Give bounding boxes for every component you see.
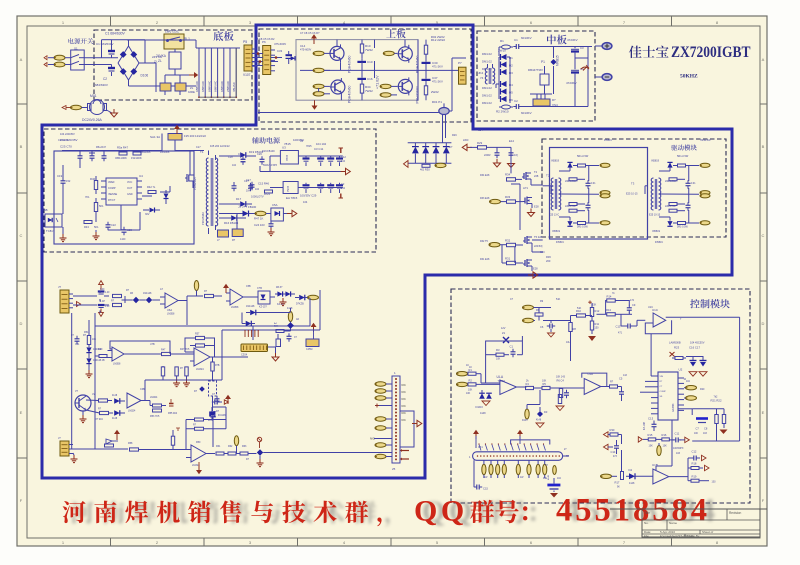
wire U1C out [666, 317, 740, 441]
connector CN1 [58, 285, 73, 313]
svg-text:R12: R12 [595, 309, 600, 313]
svg-text:C7: C7 [696, 427, 700, 431]
label 100/35V b [300, 182, 346, 204]
wire aux rail2 [260, 168, 350, 174]
svg-text:TC817: TC817 [46, 229, 55, 233]
mosfet V2 [522, 170, 543, 185]
arrow diode row [404, 161, 409, 168]
svg-text:C10: C10 [616, 325, 621, 329]
tr [551, 178, 553, 182]
svg-text:VCC: VCC [127, 181, 132, 184]
svg-text:D: D [762, 321, 765, 326]
svg-text:F25 200 12/22/22: F25 200 12/22/22 [210, 145, 230, 148]
svg-text:C?B: C?B [257, 287, 262, 290]
svg-text:5K1: 5K1 [99, 204, 104, 208]
diode Df5 [194, 386, 205, 393]
svg-text:PGH40N60: PGH40N60 [415, 86, 419, 103]
svg-text:PRN2536X: PRN2536X [201, 212, 205, 225]
power arrow m1 [311, 323, 317, 339]
svg-text:R13: R13 [606, 308, 611, 312]
diode D15 [164, 190, 169, 204]
pill m1 [288, 308, 292, 322]
module box 控制模块 [451, 289, 750, 503]
connector P2 25pin [392, 371, 400, 471]
arrow g left [638, 437, 648, 442]
bridge rectifier DY06 [112, 40, 163, 80]
svg-text:471-2KV: 471-2KV [432, 80, 443, 84]
arrow g right3 [705, 465, 710, 470]
pill drv2 [490, 199, 507, 203]
label 上板 [386, 29, 405, 38]
op-amp U6B [226, 289, 252, 309]
svg-text:10K: 10K [542, 380, 547, 383]
svg-text:DM1.02: DM1.02 [482, 60, 492, 64]
svg-text:IN5819: IN5819 [651, 160, 660, 163]
resistor RY1 [217, 230, 229, 242]
power arrow f3 [225, 395, 231, 404]
label R01 P1 [432, 100, 442, 104]
svg-text:R57: R57 [195, 333, 200, 336]
capacitor C1 [105, 32, 126, 58]
svg-text:DM1.02: DM1.02 [482, 101, 492, 105]
transistor Q4 [329, 44, 344, 62]
ground D3d [536, 423, 544, 428]
wire P2 loop [400, 411, 414, 447]
resistor R9 [535, 308, 551, 321]
svg-text:1440: 1440 [120, 238, 126, 241]
svg-text:2200: 2200 [463, 139, 469, 142]
label 4723KV b [566, 81, 577, 85]
capacitor maroon f [169, 399, 174, 406]
svg-text:475-600V: 475-600V [300, 48, 312, 52]
svg-text:D1D?: D1D? [522, 420, 529, 422]
zener Z1 [501, 327, 509, 343]
resistor R1 [468, 366, 481, 376]
svg-text:4148: 4148 [112, 418, 118, 420]
svg-text:R33: R33 [505, 195, 511, 199]
svg-text:6013KV: 6013KV [521, 111, 532, 115]
connector P6 [262, 40, 275, 75]
wire m cluster [242, 313, 291, 332]
varistor VS4 [530, 94, 558, 107]
arrow below U10 [196, 462, 202, 474]
svg-text:10K: 10K [466, 392, 471, 395]
svg-text:R7B: R7B [215, 365, 220, 367]
label sprinkle 1 [96, 31, 320, 46]
resistor R47a [131, 152, 142, 160]
svg-text:T3: T3 [631, 182, 635, 186]
op-amp ULA [481, 374, 526, 395]
svg-text:S1: S1 [74, 47, 78, 51]
svg-text:R2: R2 [469, 379, 473, 383]
diode Zf2 [139, 297, 160, 303]
svg-text:R29: R29 [477, 141, 483, 145]
IC U4 [101, 174, 143, 205]
svg-text:ZL: ZL [158, 59, 162, 63]
pins above CZ2 [478, 443, 545, 450]
svg-text:R?: R? [552, 98, 556, 102]
svg-text:100/50PX: 100/50PX [673, 447, 684, 450]
pills P2 [375, 382, 392, 400]
svg-text:25: 25 [392, 467, 396, 471]
svg-text:HR10-5W: HR10-5W [700, 139, 711, 142]
svg-text:C19: C19 [57, 174, 63, 178]
connector CN2 [58, 436, 73, 456]
svg-text:R4: R4 [526, 382, 530, 386]
spark gap [581, 65, 589, 71]
label PGH40N60 4 [415, 86, 419, 103]
svg-text:No.: No. [644, 521, 649, 525]
transistor Qf1 [75, 390, 91, 411]
power sym f4 [257, 437, 261, 448]
wire aux left [63, 165, 96, 234]
wire drv entry [543, 186, 648, 194]
capacitor C3m [571, 46, 584, 58]
capacitor C34 [274, 42, 295, 64]
svg-text:471-2KV: 471-2KV [432, 65, 443, 69]
label R21 R22 [711, 396, 722, 403]
svg-text:VIN: VIN [660, 376, 664, 378]
diode Df7 [112, 410, 125, 420]
op-amp U10 [186, 445, 215, 467]
power arrow f1 [223, 284, 229, 293]
svg-text:0.01: 0.01 [591, 183, 596, 185]
svg-text:R47 1K: R47 1K [254, 217, 263, 221]
capacitor Cf1 [98, 292, 110, 295]
diode D3g [476, 393, 492, 415]
svg-text:CZ04: CZ04 [241, 354, 248, 357]
diode Df4 [295, 295, 308, 306]
svg-text:4B: 4B [130, 292, 133, 295]
power arrow motor [62, 106, 71, 110]
wire CZ2 right [563, 449, 569, 456]
svg-text:R02 2W22: R02 2W22 [431, 35, 445, 39]
svg-text:288VAC: 288VAC [226, 80, 230, 92]
svg-text:104 45C55V: 104 45C55V [690, 340, 705, 344]
wire mid rail [300, 63, 458, 71]
label 10L [566, 341, 571, 344]
svg-text:Name: Name [669, 521, 677, 525]
svg-text:C14: C14 [478, 129, 483, 132]
label 220/63 [534, 245, 545, 254]
resistor Rf14 [186, 424, 226, 431]
pill R17 [601, 474, 621, 488]
svg-text:J2 24V: J2 24V [238, 205, 247, 209]
label 4723KV a [567, 38, 578, 42]
resistor Rf4 [95, 355, 107, 358]
svg-text:R23: R23 [674, 345, 680, 349]
svg-text:104: 104 [232, 164, 237, 167]
svg-text:5R1-0.5W: 5R1-0.5W [577, 226, 589, 229]
zener col f [86, 358, 105, 363]
relay P1m [528, 60, 549, 94]
svg-text:1K: 1K [469, 366, 472, 369]
resistor R32 [505, 239, 523, 247]
svg-text:LM324: LM324 [150, 396, 158, 399]
svg-text:R61: R61 [216, 445, 221, 448]
capacitor C17 [700, 356, 707, 367]
svg-text:R34: R34 [505, 173, 511, 177]
svg-text:D17: D17 [236, 197, 242, 201]
capacitor Cm2 [212, 399, 229, 411]
svg-text:104 104: 104 104 [316, 142, 327, 146]
resistor Rf1 [113, 294, 122, 297]
label 电源开关 [68, 38, 93, 44]
label T1v [201, 212, 205, 225]
svg-text:R36: R36 [546, 255, 551, 259]
wire g row1 [551, 320, 571, 322]
svg-text:4B Z?: 4B Z? [276, 286, 283, 289]
label sprinkle 11 [466, 298, 561, 395]
capacitor C16 [690, 356, 697, 367]
capacitor C30 [422, 59, 444, 70]
ground D1D3 [482, 401, 490, 406]
capacitor C4m [571, 58, 584, 80]
svg-text:C9: C9 [632, 303, 636, 307]
wire C16 top [686, 356, 703, 358]
svg-text:51K: 51K [556, 298, 561, 301]
resistor U8 in1 [161, 366, 164, 380]
svg-text:7K1: 7K1 [85, 195, 90, 199]
label sprinkle 14 [556, 139, 711, 244]
svg-text:OUT: OUT [127, 187, 133, 190]
transistor Q3 [397, 77, 412, 95]
svg-text:U1C: U1C [652, 308, 659, 312]
connector CZ04 [241, 344, 268, 357]
capacitor C23 [120, 227, 132, 241]
capacitor C25 [78, 150, 83, 165]
IC U2 [651, 368, 684, 421]
capacitor C2 [95, 65, 115, 88]
svg-text:104: 104 [303, 200, 308, 204]
capacitor Cd1 [484, 147, 501, 167]
svg-text:PGH40N60: PGH40N60 [348, 86, 352, 103]
arrow Cf2 [99, 309, 104, 317]
pill P2 low2 [375, 454, 392, 458]
wires P5 P6 [252, 53, 282, 66]
label E14 [509, 139, 514, 143]
transistor Q5 [330, 78, 345, 96]
red banner text [63, 493, 710, 529]
wire f right vert [212, 407, 226, 429]
svg-text:C45M: C45M [306, 348, 312, 351]
ground CZ04 [268, 347, 279, 361]
label PGH40N60 1 [348, 56, 352, 73]
label sprinkle 3 [140, 145, 230, 154]
connector P6r [458, 61, 466, 84]
svg-text:N/C: N/C [402, 398, 407, 401]
diode D20 [237, 211, 255, 217]
svg-text:200: 200 [546, 259, 551, 263]
wire f bottom bus [69, 448, 128, 450]
capacitor C19 [57, 174, 71, 186]
svg-text:9K: 9K [617, 487, 620, 489]
svg-text:51K: 51K [577, 307, 582, 310]
svg-text:+71.02V: +71.02V [376, 75, 380, 89]
motor pill [71, 105, 88, 109]
red plus g1 [588, 301, 592, 305]
pill R1 [457, 372, 468, 376]
labels DM1.02 b [482, 86, 492, 105]
diode D16 [219, 215, 246, 225]
svg-text:R15: R15 [648, 433, 653, 437]
capacitor C17a [246, 178, 260, 191]
svg-text:E: E [20, 410, 23, 415]
svg-text:A: A [20, 57, 23, 62]
power arrow f2 [114, 430, 120, 440]
ground drv2 [528, 209, 535, 217]
label sprinkle 2 [58, 132, 106, 149]
wire U2 left pins [640, 334, 651, 392]
resistor Rf9 [150, 401, 166, 408]
diode D4g [626, 468, 653, 485]
red terminal bottom [339, 194, 344, 199]
label R6 C4 [556, 376, 566, 383]
wire drv右 [515, 247, 551, 263]
capacitor C4 [564, 390, 569, 398]
pins CZ04 [244, 330, 258, 337]
svg-text:E25 10-15: E25 10-15 [626, 193, 638, 196]
regulator U6 [270, 182, 343, 201]
svg-text:D4: D4 [629, 468, 633, 472]
svg-text:C1 684/630V: C1 684/630V [96, 42, 114, 46]
wire U7 fb [110, 341, 170, 354]
wire U9 up [145, 357, 222, 401]
box C5A [271, 203, 290, 221]
svg-text:7815: 7815 [285, 154, 289, 161]
transformer T3 assembly [649, 155, 710, 233]
svg-text:LM358: LM358 [167, 313, 175, 316]
op-amp U1C [645, 308, 671, 334]
capacitor C1m [513, 38, 521, 49]
diode D3 [501, 69, 514, 75]
diode D4 [501, 81, 514, 87]
resistor R7g [610, 381, 622, 389]
pill Q3 b2 [380, 93, 397, 97]
svg-text:B: B [762, 144, 765, 149]
wire U8 out [222, 290, 320, 357]
capacitor C70 [89, 153, 95, 161]
svg-text:688VAC: 688VAC [214, 80, 218, 92]
svg-text:5R1-0.5W: 5R1-0.5W [577, 155, 589, 158]
pill g1 [523, 305, 552, 309]
svg-text:T5 228: T5 228 [534, 235, 543, 239]
svg-text:4148: 4148 [112, 395, 118, 397]
svg-text:VS4: VS4 [552, 103, 558, 107]
capacitor C5 [619, 375, 628, 401]
svg-text:49E: 49E [543, 478, 548, 480]
resistor R29 [470, 141, 511, 149]
svg-text:OB1100K: OB1100K [115, 156, 127, 160]
resistor array CZ2 [482, 460, 547, 478]
label sprinkle 5 [452, 129, 483, 142]
svg-text:475-600V: 475-600V [274, 42, 286, 46]
pill gv [522, 409, 529, 422]
svg-text:C: C [20, 233, 23, 238]
label sprinkle 4 [228, 140, 312, 167]
diode Dm2 [242, 321, 255, 327]
zener Zf3 [275, 286, 295, 297]
svg-text:4723KV: 4723KV [567, 38, 578, 42]
svg-text:R51: R51 [84, 331, 89, 334]
label PGH40N60 2 [348, 86, 352, 103]
svg-text:LAW500B: LAW500B [669, 340, 681, 344]
pill g2 [523, 318, 536, 322]
svg-text:R8: R8 [573, 327, 577, 331]
capacitor C22 [106, 222, 117, 230]
diode Dm4 [210, 411, 226, 447]
capacitor C13 [652, 421, 657, 432]
module box 辅助电源 [44, 129, 376, 252]
svg-text:R31: R31 [505, 257, 511, 261]
resistor R3 [496, 348, 504, 361]
title 佳士宝ZX7200IGBT [629, 44, 751, 61]
pill f2 [307, 295, 319, 299]
wire aux top rail [62, 134, 204, 155]
label C13 [644, 417, 654, 431]
svg-text:PGH40N60: PGH40N60 [415, 56, 419, 73]
svg-text:47L14B: 47L14B [644, 422, 646, 430]
capacitor C21a [232, 182, 237, 191]
resistor R12 [424, 38, 445, 59]
svg-text:QQ: QQ [414, 495, 468, 528]
capacitor C9 [627, 299, 636, 313]
resistor R22 [722, 415, 725, 429]
capacitor Cf5 [71, 335, 80, 344]
net label wires 底板 [195, 48, 240, 98]
ground Qf1 [80, 411, 87, 423]
svg-text:7915: 7915 [286, 185, 290, 192]
resistor R41 [94, 198, 104, 216]
pill U2 r1 [684, 386, 697, 390]
resistor R14 [607, 292, 616, 302]
svg-text:Drawn By:: Drawn By: [687, 534, 700, 538]
svg-text:38UAC: 38UAC [232, 81, 236, 92]
capacitor C10 [357, 59, 372, 71]
label sprinkle 6 [480, 174, 490, 261]
svg-text:50KHZ: 50KHZ [680, 74, 698, 80]
wire bottom 中板 [521, 47, 588, 107]
svg-text:10K: 10K [663, 445, 668, 448]
svg-text:D106: D106 [141, 74, 149, 78]
capacitor C16 [357, 70, 372, 84]
svg-text:IN5819: IN5819 [655, 241, 663, 244]
capacitor C28 [238, 152, 246, 165]
capacitor C26 [241, 156, 246, 164]
svg-text:7815: 7815 [306, 145, 312, 148]
svg-text:C6B: C6B [140, 388, 145, 391]
svg-text:C17: C17 [196, 146, 201, 149]
capacitor C27 [244, 179, 253, 193]
svg-text:C5: C5 [619, 377, 623, 381]
svg-text:D: D [20, 321, 23, 326]
svg-text:688VAC: 688VAC [195, 80, 199, 92]
label sprinkle 9 [92, 388, 178, 421]
svg-text:16]: 16] [514, 153, 518, 157]
resistor Rf11 [95, 444, 114, 449]
svg-text:E14: E14 [509, 139, 514, 143]
svg-text:T2: T2 [546, 174, 550, 178]
mosfet V10 [523, 197, 539, 209]
arrow Cf1 [99, 281, 104, 290]
resistor R10 [571, 307, 593, 317]
svg-text:R16: R16 [662, 433, 667, 437]
resistor R12 [590, 303, 600, 317]
capacitor C11 [669, 432, 681, 443]
svg-text:104: 104 [246, 190, 251, 193]
capacitor C2m [513, 99, 531, 115]
svg-text:24VKA: 24VKA [156, 54, 167, 58]
